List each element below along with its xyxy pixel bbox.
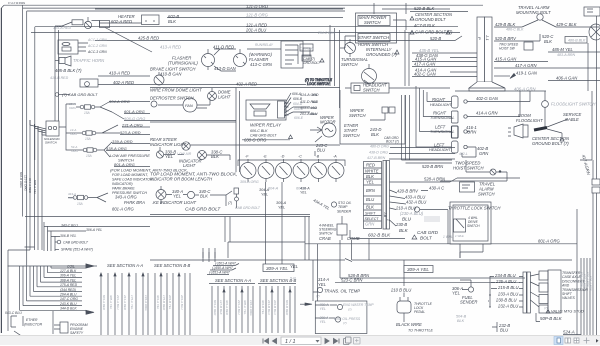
svg-text:C:\1 2 W DWG: C:\1 2 W DWG: [8, 1, 25, 5]
wire 414-A GRN: [467, 91, 520, 117]
svg-text:210-A BLU: 210-A BLU: [395, 206, 417, 211]
border frame left outer: [0, 8, 2, 333]
valve box 3: [539, 295, 548, 304]
ground triangle wiper: [289, 135, 293, 139]
two speed hoist box: [524, 42, 533, 50]
svg-text:(7): (7): [348, 308, 352, 312]
SEC:center: [150, 88, 340, 173]
gauge row1 circle: [337, 304, 342, 309]
wire lamp links: [164, 145, 340, 160]
svg-text:414-A ORD: 414-A ORD: [300, 93, 319, 97]
svg-text:YEL: YEL: [165, 154, 174, 159]
wire 50B BLK: [536, 313, 540, 322]
tool copy-page icon: [344, 337, 361, 345]
wiper relay pins: [285, 103, 289, 115]
stg oil temp sender circle: [331, 202, 336, 207]
travel alarm bolt circle: [537, 14, 543, 20]
svg-text:419-1 GAN: 419-1 GAN: [516, 71, 538, 76]
program engine box: [60, 322, 68, 333]
svg-text:.KE INDICATOR LIGHT: .KE INDICATOR LIGHT: [152, 200, 196, 205]
svg-text:BLK: BLK: [457, 319, 465, 323]
connector row bracket: [238, 160, 345, 166]
fuse F3: [83, 148, 87, 152]
svg-text:(230-A BLU): (230-A BLU): [400, 211, 424, 216]
svg-text:134-A ORG: 134-A ORG: [144, 295, 148, 311]
wire 433-A BLU: [390, 196, 406, 199]
svg-text:BRN: BRN: [366, 188, 376, 193]
flasher F1 circle: [202, 54, 215, 67]
wire 520-B BLK: [410, 11, 468, 13]
svg-text:BOLT (7): BOLT (7): [386, 140, 399, 144]
svg-text:SPARE (551-A WHT): SPARE (551-A WHT): [61, 248, 93, 252]
svg-text:TURNSIGNAL: TURNSIGNAL: [430, 130, 454, 134]
right tool two-page icon: [565, 338, 579, 343]
arrow dot 419: [510, 74, 516, 79]
svg-text:15A: 15A: [77, 202, 83, 206]
wire 801-A ORG long: [305, 243, 577, 245]
svg-text:ORG: ORG: [69, 106, 77, 110]
nav last-page icon: [334, 339, 338, 344]
right turnsignal dot: [464, 115, 467, 118]
switch column verticals low: [402, 95, 453, 163]
boom floodlight lamp: [514, 124, 528, 138]
svg-text:306-A YEL: 306-A YEL: [86, 228, 102, 232]
svg-text:BLACK WIRE: BLACK WIRE: [396, 322, 422, 327]
heater box pins: [146, 20, 154, 22]
svg-text:204-B BLU: 204-B BLU: [273, 299, 277, 316]
wire 419-A GAN arrow: [494, 75, 510, 77]
svg-text:TRAFFIC HORN: TRAFFIC HORN: [73, 58, 105, 63]
svg-text:402-C GAN: 402-C GAN: [414, 72, 437, 77]
svg-text:480-D ORG: 480-D ORG: [370, 145, 389, 149]
svg-text:524-A: 524-A: [563, 330, 575, 335]
svg-text:523-C BRN: 523-C BRN: [341, 278, 363, 283]
connector circle -E: [258, 163, 274, 179]
fuel sender circle: [468, 287, 473, 292]
solenoid contacts: [48, 126, 51, 129]
left vertical wire 4: [41, 130, 43, 250]
wire 402-B GRN loop: [462, 147, 476, 157]
SEC:topmid: [300, 3, 450, 108]
wiper motor sine: [325, 129, 333, 132]
nested L x55: [55, 236, 57, 251]
svg-text:-B: -B: [316, 155, 320, 159]
cab grd bolt circle 2: [57, 240, 61, 244]
wiper area box: [340, 90, 405, 144]
right small box 2: [592, 187, 600, 193]
svg-text:(TURNSIGNAL): (TURNSIGNAL): [168, 61, 198, 66]
svg-text:306-C YEL: 306-C YEL: [243, 300, 247, 315]
valve connector bar1: [523, 272, 526, 313]
vertical feed x352: [351, 240, 353, 260]
svg-text:104-A RED: 104-A RED: [53, 26, 71, 30]
wire 231-A ORG: [122, 126, 150, 128]
stub row 7: [56, 295, 82, 297]
svg-text:15A: 15A: [85, 137, 91, 141]
wire start to horn: [340, 36, 356, 48]
svg-text:204-A BLU: 204-A BLU: [180, 294, 184, 310]
4wheel steering stub: [341, 216, 343, 240]
svg-text:YEL: YEL: [300, 191, 307, 195]
svg-text:413-D GAN: 413-D GAN: [214, 66, 237, 71]
svg-text:LOW AIR: LOW AIR: [177, 152, 192, 156]
wires switch column: [330, 25, 340, 108]
svg-text:402-A RED: 402-A RED: [113, 80, 134, 85]
svg-text:604-C RED: 604-C RED: [213, 300, 217, 316]
svg-text:START SWITCH: START SWITCH: [358, 35, 390, 40]
svg-text:604-B RED: 604-B RED: [285, 300, 289, 316]
pin marks 111: [203, 252, 215, 258]
svg-text:(7): (7): [343, 321, 347, 325]
park brake stub: [161, 195, 226, 206]
svg-text:415-A GAN: 415-A GAN: [495, 57, 517, 62]
svg-text:BLK: BLK: [371, 132, 379, 137]
wire y121.8: [150, 121, 236, 123]
wire 604-A ORG branch: [109, 101, 150, 103]
SEC:wipermotor: [310, 90, 455, 159]
wires 234 stack: [519, 277, 523, 308]
vertical x230: [229, 217, 231, 243]
svg-text:602-B ORG: 602-B ORG: [19, 172, 23, 188]
turnsignal switch circle: [362, 69, 377, 84]
pin marks ext: [203, 248, 215, 262]
program engine leads: [54, 325, 60, 329]
ether injector bracket: [11, 316, 17, 327]
wires to P-J1 top: [393, 3, 406, 30]
fuse block inner rect: [62, 47, 71, 51]
left vertical wire 3: [37, 126, 39, 250]
svg-text:506-A BRN: 506-A BRN: [589, 276, 593, 292]
SEC:midleft: [30, 26, 150, 167]
svg-text:LEFT: LEFT: [435, 125, 446, 130]
vertical x369 low: [368, 239, 370, 261]
run relay internals: [285, 45, 298, 64]
svg-text:602-B BLK: 602-B BLK: [368, 233, 391, 238]
svg-text:406-A GRN: 406-A GRN: [514, 87, 536, 92]
nav prev-page icon: [273, 339, 277, 344]
wire 485-M YEL: [548, 51, 600, 53]
left turnsignal lamp: [452, 126, 459, 138]
svg-text:402-L: 402-L: [459, 152, 468, 156]
cab connector small boxes: [300, 44, 313, 51]
frame L1: [23, 5, 345, 216]
drop symbol circle: [235, 197, 239, 201]
right mini arrow: [596, 339, 599, 343]
wire right edge vert: [580, 91, 592, 160]
SEC:connector-row: [238, 159, 345, 182]
headlight switch inner: [354, 86, 360, 91]
svg-text:COIL: COIL: [67, 264, 75, 268]
svg-text:RED: RED: [366, 163, 375, 168]
wire 608-G ORG ext: [242, 139, 290, 141]
svg-text:TEMP: TEMP: [338, 205, 348, 209]
L frame above bundles: [228, 242, 305, 258]
page field box: [281, 337, 321, 345]
left headlight dot: [464, 145, 467, 148]
svg-text:WIRE FROM DOME LIGHT: WIRE FROM DOME LIGHT: [150, 88, 202, 93]
right edge verticals: [593, 16, 597, 336]
svg-text:429-B BLK: 429-B BLK: [495, 22, 515, 27]
svg-text:2: 2: [387, 218, 391, 221]
svg-text:306-A YEL: 306-A YEL: [60, 274, 76, 278]
svg-text:CRAB: CRAB: [319, 236, 331, 241]
svg-text:406-A GAN: 406-A GAN: [556, 76, 578, 81]
svg-text:520-B BRV: 520-B BRV: [495, 36, 517, 41]
svg-text:411-D RED: 411-D RED: [213, 45, 234, 50]
svg-text:438-D ORG: 438-D ORG: [369, 151, 388, 155]
bundle D arrows: [271, 289, 291, 292]
J-B2 pin bar 1: [383, 161, 386, 230]
SEC:bottomright: [460, 258, 590, 336]
border corner diagonal: [1, 5, 4, 8]
svg-text:TO THROTTLE: TO THROTTLE: [408, 329, 433, 333]
valve diag wires: [530, 274, 539, 307]
svg-text:ORG: ORG: [70, 132, 78, 136]
svg-text:425-B RED: 425-B RED: [138, 36, 159, 41]
svg-text:1 / 1: 1 / 1: [285, 339, 296, 345]
valve connector bar2: [527, 272, 530, 313]
relay K2 circle: [85, 82, 90, 87]
svg-text:YEL: YEL: [278, 206, 285, 210]
svg-text:GRN: GRN: [584, 165, 591, 176]
svg-text:414-A GRN: 414-A GRN: [476, 111, 498, 116]
nested L x51: [51, 231, 60, 251]
valve box 1: [539, 271, 548, 280]
wire 210-A BLU: [390, 208, 449, 210]
wire floodlight gnd: [547, 129, 562, 137]
svg-text:J-1: J-1: [485, 34, 490, 41]
svg-text:231-A BLU: 231-A BLU: [237, 299, 241, 315]
wire 411-D RED: [214, 49, 236, 55]
left vertical wire 1: [29, 120, 31, 250]
svg-text:SWITCH: SWITCH: [343, 133, 360, 138]
svg-text:ACC-2 GRN: ACC-2 GRN: [87, 44, 107, 48]
svg-text:413-C VIO: 413-C VIO: [300, 106, 317, 110]
wiper relay inner top: [250, 104, 270, 109]
svg-text:LIGHT: LIGHT: [218, 95, 231, 100]
4wd relay box: [454, 219, 466, 232]
J-B2 connector outer box: [364, 162, 382, 229]
low air lamp: [198, 151, 207, 160]
travel alarm sw box: [460, 182, 475, 192]
stub row 3: [56, 276, 82, 278]
wire 243-C BLU: [315, 136, 322, 156]
wire 520-B BRV: [494, 34, 540, 41]
vertical feed x340: [339, 240, 341, 278]
svg-text:343-C BLU: 343-C BLU: [61, 224, 78, 228]
svg-text:304-A RED: 304-A RED: [225, 300, 229, 316]
wire 121-A RED: [35, 26, 458, 28]
stub row 5: [56, 286, 82, 288]
stub row 4: [56, 281, 82, 283]
svg-text:402-A RED: 402-A RED: [236, 82, 257, 87]
right small box 1: [592, 179, 600, 185]
svg-text:SEE SECTION A-A: SEE SECTION A-A: [215, 278, 251, 283]
nav first-page icon: [263, 339, 277, 344]
park brake lamp: [156, 190, 166, 200]
svg-text:BLU: BLU: [402, 217, 412, 222]
svg-text:121-D ORG: 121-D ORG: [24, 175, 28, 192]
svg-text:486-C BLK: 486-C BLK: [506, 28, 524, 32]
wire box drop: [460, 244, 483, 258]
bundle A arrows: [100, 273, 144, 276]
svg-text:601-A ORG: 601-A ORG: [124, 109, 145, 114]
svg-text:BLK: BLK: [200, 194, 208, 199]
svg-text:TRANS. OIL TEMP: TRANS. OIL TEMP: [324, 288, 360, 293]
svg-text:201-A BLU: 201-A BLU: [245, 28, 267, 33]
svg-text:801-A ORG: 801-A ORG: [538, 239, 560, 244]
svg-text:402-G GAN: 402-G GAN: [476, 96, 499, 101]
svg-text:127-A BLK: 127-A BLK: [60, 269, 77, 273]
svg-text:411-D RED: 411-D RED: [300, 100, 319, 104]
svg-text:606-E: 606-E: [294, 116, 304, 120]
left turnsignal dot: [464, 130, 467, 133]
svg-text:CABLE: CABLE: [565, 117, 579, 122]
svg-text:SWITCH: SWITCH: [478, 192, 495, 197]
wire 523-C BRN: [335, 281, 520, 283]
connector circle -B: [311, 163, 327, 179]
vertical x265: [265, 182, 267, 264]
svg-text:CAR GRD BOLT (7): CAR GRD BOLT (7): [415, 30, 453, 35]
SEC:bundles: [100, 242, 305, 335]
svg-text:231-A ORG: 231-A ORG: [121, 123, 143, 128]
svg-text:304-A YEL: 304-A YEL: [156, 295, 160, 310]
ground symbol internally grounded: [395, 50, 399, 54]
lamp feed verticals: [416, 86, 427, 138]
svg-text:ACC-1 GRN: ACC-1 GRN: [87, 38, 107, 42]
solenoid feed diagonals: [30, 120, 46, 135]
svg-text:BLK: BLK: [211, 154, 219, 159]
svg-text:YEL: YEL: [318, 282, 327, 287]
solenoid out wires: [59, 104, 78, 150]
wires label rows to P-J1: [412, 53, 477, 77]
svg-text:TURNSIGNAL: TURNSIGNAL: [430, 116, 454, 120]
svg-text:SEE SECTION B-B: SEE SECTION B-B: [154, 263, 191, 268]
arrow y312: [86, 310, 94, 314]
svg-text:5-B: 5-B: [290, 277, 296, 281]
svg-text:PARK BRA: PARK BRA: [124, 200, 145, 205]
drop symbol lead: [236, 194, 238, 208]
svg-text:417-A GRN: 417-A GRN: [515, 63, 537, 68]
svg-text:INDICATOR): INDICATOR): [112, 182, 133, 186]
svg-text:BOLT: BOLT: [420, 236, 433, 241]
long bus y260: [150, 259, 572, 261]
flasher F2 pins: [236, 49, 245, 64]
start switch box: [358, 34, 390, 42]
svg-text:343-A ORG: 343-A ORG: [115, 195, 137, 200]
wire park brake links: [166, 191, 232, 195]
svg-text:SHIFT: SHIFT: [365, 212, 376, 216]
run relay side box: [303, 48, 310, 56]
svg-text:SENDER: SENDER: [460, 300, 477, 305]
4wheel steering box: [337, 224, 347, 235]
headlight switch box: [351, 83, 389, 93]
valve main box: [548, 270, 561, 313]
main power switch enclosure: [356, 13, 397, 43]
svg-text:(-)550-A WHT: (-)550-A WHT: [212, 266, 234, 270]
svg-text:GRD BOLT: GRD BOLT: [303, 61, 321, 65]
svg-text:430-A C: 430-A C: [429, 186, 445, 191]
svg-text:210 B BLU: 210 B BLU: [390, 288, 412, 293]
svg-text:VALVES: VALVES: [562, 296, 576, 300]
trans oil temp circle: [317, 287, 322, 292]
ground triangle center section: [410, 17, 414, 21]
vertical x225: [224, 217, 226, 243]
svg-text:P: P: [477, 37, 482, 40]
right lamp ellipse: [589, 24, 600, 40]
svg-text:SWITCH: SWITCH: [349, 113, 366, 118]
svg-text:520-B: 520-B: [430, 36, 441, 41]
stub row 2: [56, 272, 82, 274]
stub row 8: [56, 300, 82, 302]
wire 601-A ORG: [124, 113, 150, 115]
svg-text:BLK: BLK: [366, 205, 374, 210]
wire cab grd bolt: [59, 94, 70, 96]
svg-text:GROUND BOLT: GROUND BOLT: [415, 17, 446, 22]
svg-text:417-B BRN: 417-B BRN: [367, 156, 386, 160]
wire 606-G ORG: [124, 120, 150, 122]
SEC:rightmid2: [305, 16, 600, 336]
solenoid switch box: [46, 121, 59, 136]
vertical x305 pair: [305, 217, 309, 261]
svg-text:YEL: YEL: [173, 194, 182, 199]
wire dome light bus: [150, 87, 340, 89]
svg-text:15A: 15A: [86, 154, 92, 158]
wire 417-A GRN: [494, 67, 600, 69]
svg-text:LOCK SWITCH: LOCK SWITCH: [307, 82, 330, 86]
svg-text:YEL: YEL: [320, 320, 327, 324]
brake light switch circle: [154, 75, 164, 85]
svg-text:(7): (7): [544, 306, 548, 310]
wire 602-B BLK jb2: [350, 230, 405, 239]
travel alarm sw inner: [462, 185, 470, 188]
fan leads: [158, 99, 210, 108]
bundle D verticals: [260, 286, 295, 333]
svg-text:602-A RED: 602-A RED: [111, 19, 132, 24]
rear steer lamp: [182, 142, 190, 150]
svg-text:YEL: YEL: [261, 193, 268, 197]
frame L3: [34, 27, 36, 160]
wires fuse block to acc labels: [78, 43, 88, 51]
svg-text:230-B: 230-B: [395, 222, 407, 227]
svg-text:(-)551-A WHT: (-)551-A WHT: [209, 271, 231, 275]
svg-text:215-B BLU: 215-B BLU: [497, 285, 519, 290]
valve mtg triangle: [546, 310, 550, 314]
svg-text:243-K BLU: 243-K BLU: [59, 302, 77, 306]
stub row 6: [56, 291, 82, 293]
bundle C arrows: [223, 289, 243, 292]
flasher F1 pins: [204, 49, 213, 70]
wiper motor circle: [322, 123, 336, 137]
travel alarm wires: [522, 20, 556, 27]
svg-text:RIGHT: RIGHT: [432, 97, 445, 102]
svg-text:429-C BLK: 429-C BLK: [556, 22, 577, 27]
wire horn: [55, 60, 59, 62]
svg-text:HOIST SWITCH: HOIST SWITCH: [453, 166, 484, 171]
svg-text:339-A ORD: 339-A ORD: [112, 139, 133, 144]
wire gauge left stub: [300, 303, 305, 305]
wire main power top: [374, 3, 450, 14]
wire 420-B BRV fan: [390, 190, 429, 193]
throttle lock switch inner box: [453, 205, 488, 241]
fuse F3 leads: [78, 142, 112, 157]
svg-text:FLOODLIGHT: FLOODLIGHT: [516, 118, 543, 123]
svg-text:309-A: 309-A: [276, 201, 287, 205]
svg-text:FAN: FAN: [185, 103, 193, 108]
hoist switch dot: [499, 171, 501, 173]
svg-text:231-A BLU: 231-A BLU: [116, 294, 120, 310]
wires center verticals: [236, 88, 240, 173]
